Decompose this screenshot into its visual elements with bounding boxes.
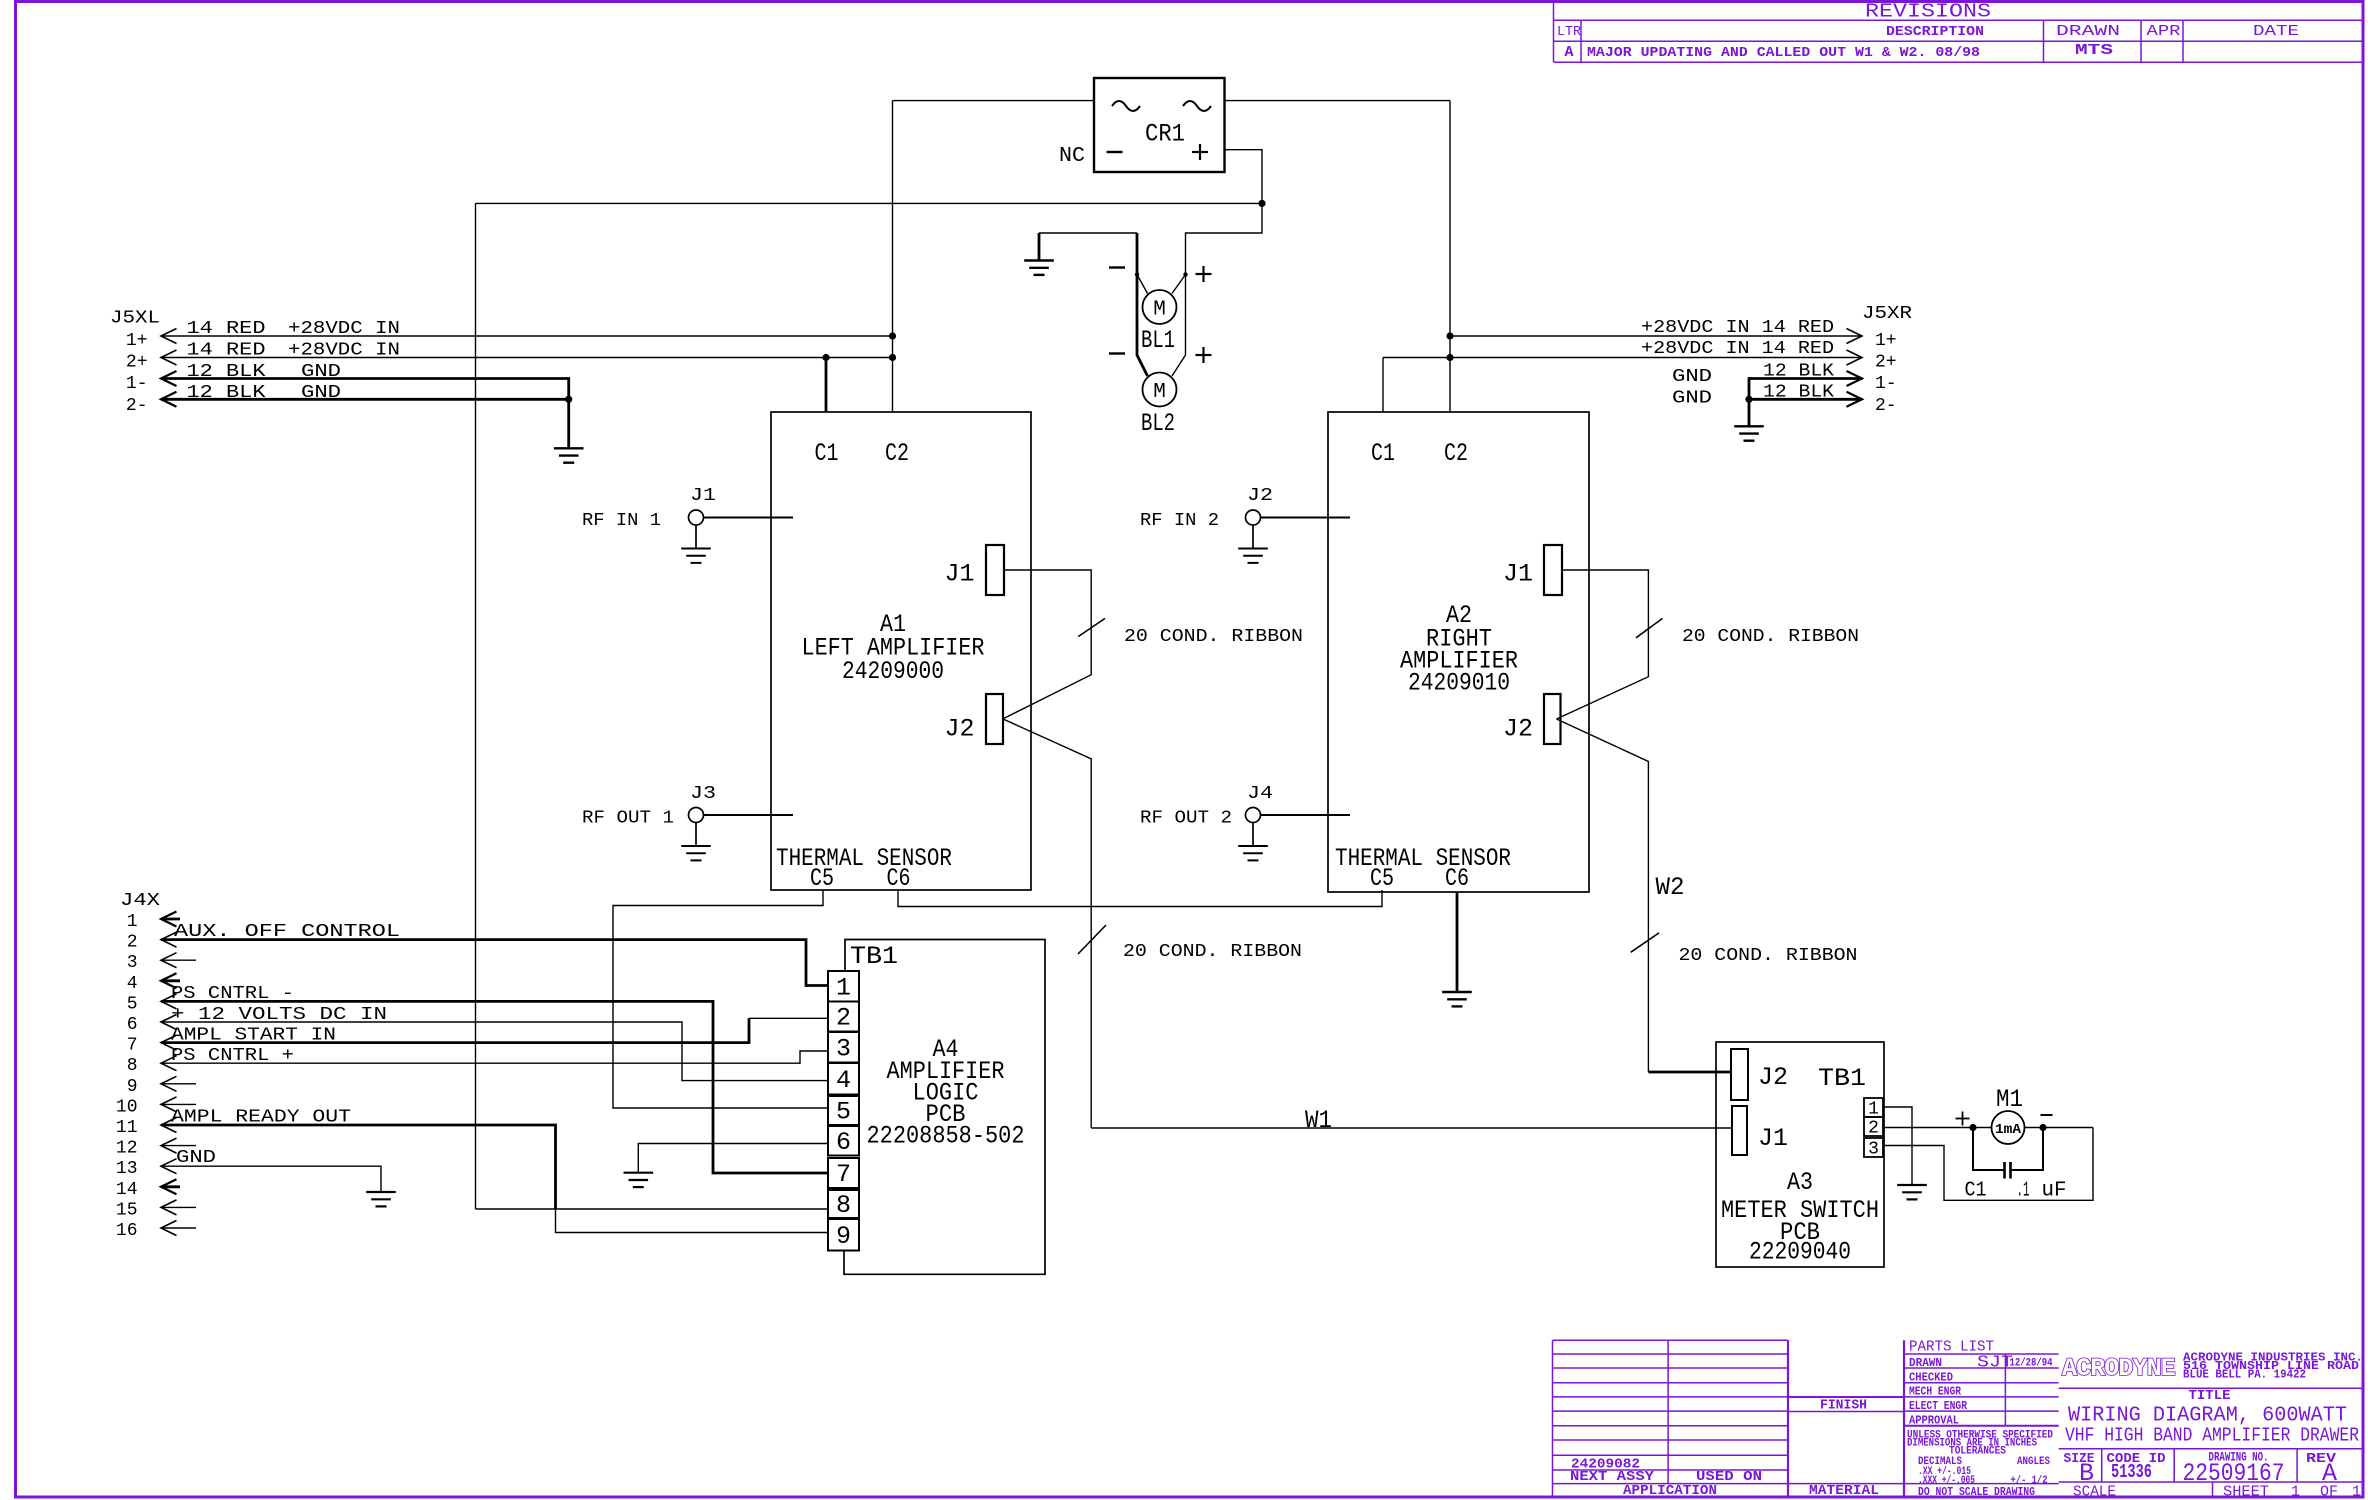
svg-text:GND: GND — [1672, 389, 1712, 409]
svg-text:LTR: LTR — [1557, 24, 1582, 40]
wire BL1 minus drop — [1136, 233, 1139, 275]
wire W1 to A3 J1 — [1091, 1127, 1732, 1129]
J4X pin 9 stub — [161, 1083, 196, 1085]
ground symbol J5XL — [554, 448, 584, 462]
node dot meter minus — [2039, 1124, 2046, 1131]
svg-text:DRAWN: DRAWN — [1909, 1356, 1942, 1370]
J4X pin 16 stub — [161, 1227, 196, 1229]
A4 TB1 terminal 8 box — [828, 1190, 859, 1218]
connector J2 RF IN 2 circle — [1246, 510, 1261, 525]
svg-text:2-: 2- — [1875, 396, 1897, 416]
svg-text:12: 12 — [116, 1139, 138, 1159]
connector J3 RF OUT 1 circle — [689, 808, 704, 823]
wire J5XL 2+ line — [161, 357, 893, 359]
svg-text:5: 5 — [836, 1098, 851, 1127]
module A1 block outline — [771, 412, 1031, 890]
wire A1 C1 stub — [825, 358, 828, 413]
svg-text:M: M — [1153, 299, 1166, 322]
wire J5XL 2- line — [161, 398, 569, 401]
svg-text:J1: J1 — [945, 560, 975, 589]
svg-text:24209010: 24209010 — [1408, 669, 1510, 698]
module A2 block outline — [1328, 412, 1589, 892]
svg-text:14 RED: 14 RED — [187, 341, 266, 361]
wire capacitor to minus rail — [2011, 1128, 2044, 1171]
J4X pin 3 stub — [161, 959, 196, 961]
wire CR1 plus output — [1225, 150, 1263, 204]
svg-text:5: 5 — [127, 994, 138, 1014]
J4X pin 7 arrow — [161, 1035, 177, 1050]
J4X pin 4 arrow — [161, 973, 177, 988]
svg-text:OF: OF — [2320, 1484, 2338, 1500]
wire J5XR 2- line — [1749, 398, 1862, 401]
blower BL1 motor circle — [1143, 290, 1177, 324]
ground stub RF OUT 1 — [695, 823, 697, 847]
svg-text:J3: J3 — [690, 784, 716, 804]
svg-text:3: 3 — [836, 1034, 851, 1063]
svg-text:2+: 2+ — [126, 353, 148, 373]
wire A1 J1 ribbon — [1003, 570, 1091, 719]
wire J5XR 1+ line — [1450, 335, 1862, 337]
node dot J5XL gnd junction — [565, 396, 572, 403]
J5XL arrow 1+ — [161, 329, 177, 344]
J5XL arrow 1- — [161, 371, 177, 386]
node dot 1+ tap right — [1446, 332, 1453, 339]
svg-text:VHF HIGH BAND AMPLIFIER DRAWER: VHF HIGH BAND AMPLIFIER DRAWER — [2065, 1425, 2359, 1447]
wire AMPL START into TB1-2 — [749, 1017, 828, 1019]
J4X pin 3 arrow — [161, 953, 177, 968]
wire RF OUT 1 — [704, 814, 794, 816]
connector A1 J2 rect — [986, 694, 1003, 744]
J4X pin 1 arrow — [161, 912, 177, 927]
svg-text:J4: J4 — [1247, 784, 1273, 804]
connector A1 J1 rect — [986, 545, 1004, 595]
J4X pin 12 stub — [161, 1145, 196, 1147]
svg-text:DO NOT SCALE DRAWING: DO NOT SCALE DRAWING — [1918, 1485, 2035, 1499]
svg-text:C1: C1 — [1965, 1180, 1987, 1203]
wire RF IN 1 — [704, 517, 794, 519]
ground symbol RF IN 2 — [1238, 549, 1268, 563]
ground stub J5XR — [1748, 399, 1751, 426]
J4X pin 11 arrow — [161, 1118, 177, 1133]
A3 TB1 terminal 2 box — [1864, 1117, 1883, 1136]
svg-text:W1: W1 — [1305, 1106, 1332, 1135]
blower BL2 minus sign — [1109, 352, 1125, 354]
svg-text:RF OUT 2: RF OUT 2 — [1140, 809, 1232, 829]
ribbon slash A1 upper — [1078, 618, 1105, 636]
wire meter minus side — [2025, 1127, 2094, 1129]
wire J5XL 1- line — [161, 379, 569, 400]
J4X pin 14 stub — [161, 1185, 180, 1188]
rectifier CR1 box — [1094, 78, 1225, 172]
blower BL1 plus sign — [1196, 266, 1212, 282]
J5XR arrow 2+ — [1847, 350, 1863, 365]
ground stub RF OUT 2 — [1252, 823, 1254, 847]
svg-text:16: 16 — [116, 1221, 138, 1241]
A4 TB1 terminal 7 box — [828, 1158, 859, 1188]
wire BL1 minus down to BL2 — [1137, 275, 1148, 377]
ground stub J5XL — [567, 399, 570, 448]
wire +28V into A4 TB1-8 — [476, 1208, 829, 1210]
parts list section lines — [1904, 1354, 2059, 1484]
ground symbol blower minus rail — [1024, 261, 1054, 275]
svg-text:2: 2 — [836, 1004, 851, 1033]
svg-text:1: 1 — [127, 912, 138, 932]
wire J4X pin5 PS CNTRL- to TB1-7 — [161, 1001, 828, 1173]
wire J4X pin11 AMPL READY to TB1-9 — [161, 1125, 556, 1209]
module A3 block outline — [1716, 1042, 1884, 1267]
node dot CR1 plus junction — [1258, 200, 1265, 207]
svg-text:J2: J2 — [945, 715, 975, 744]
svg-text:CR1: CR1 — [1145, 120, 1185, 149]
svg-text:20 COND. RIBBON: 20 COND. RIBBON — [1682, 627, 1859, 647]
svg-text:15: 15 — [116, 1200, 138, 1220]
svg-text:ANGLES: ANGLES — [2017, 1456, 2050, 1468]
svg-text:1-: 1- — [1875, 374, 1897, 394]
J5XR arrow 1- — [1847, 371, 1863, 386]
blower BL1 minus sign — [1109, 266, 1125, 268]
svg-text:1+: 1+ — [1875, 331, 1897, 351]
svg-text:A3: A3 — [1787, 1168, 1813, 1197]
ground symbol J4X pin13 — [366, 1192, 396, 1206]
wire left riser x=892 down to A1 C2 — [892, 101, 894, 412]
wire RF IN 2 — [1261, 517, 1351, 519]
svg-text:MTS: MTS — [2075, 42, 2113, 59]
J4X pin 10 stub — [161, 1103, 196, 1105]
svg-text:12 BLK: 12 BLK — [1763, 383, 1834, 403]
A4 TB1 terminal 9 box — [828, 1219, 859, 1251]
wire minus rail ground to BL1 minus — [1039, 232, 1137, 234]
svg-text:C1: C1 — [815, 439, 839, 468]
svg-text:THERMAL SENSOR: THERMAL SENSOR — [1335, 844, 1511, 873]
ground symbol RF OUT 1 — [681, 846, 711, 860]
svg-text:J2: J2 — [1758, 1063, 1788, 1092]
ribbon slash A2 upper — [1636, 618, 1663, 637]
wire A1 C5 to TB1-5 — [613, 890, 828, 1108]
svg-text:1: 1 — [2291, 1484, 2300, 1500]
svg-text:2: 2 — [127, 933, 138, 953]
wire J5XL 1+ line — [161, 335, 893, 337]
J4X pin 10 arrow — [161, 1097, 177, 1112]
svg-text:GND: GND — [176, 1148, 216, 1168]
svg-text:ACRODYNE: ACRODYNE — [2062, 1354, 2175, 1383]
svg-text:8: 8 — [127, 1056, 138, 1076]
svg-text:MAJOR UPDATING AND CALLED OUT: MAJOR UPDATING AND CALLED OUT W1 & W2. 0… — [1587, 45, 1980, 61]
svg-text:51336: 51336 — [2111, 1461, 2152, 1483]
svg-text:ELECT ENGR: ELECT ENGR — [1909, 1399, 1968, 1413]
J4X pin 9 arrow — [161, 1076, 177, 1091]
connector J1 RF IN 1 circle — [689, 510, 704, 525]
svg-text:APPLICATION: APPLICATION — [1623, 1483, 1717, 1499]
svg-text:2: 2 — [1868, 1119, 1879, 1139]
J5XR arrow 2- — [1847, 392, 1863, 407]
ground symbol RF OUT 2 — [1238, 846, 1268, 860]
J4X pin 8 arrow — [161, 1056, 177, 1071]
blower BL1 minus lead — [1137, 275, 1148, 294]
A3 TB1 terminal 3 box — [1864, 1138, 1883, 1157]
svg-text:A: A — [1565, 44, 1574, 61]
A4 TB1 terminal 6 box — [828, 1126, 859, 1156]
CR1 minus terminal sign — [1107, 151, 1123, 153]
connector A2 J2 rect — [1544, 694, 1561, 744]
wire A1 C6 to A2 C5 — [898, 890, 1382, 907]
meter M1 circle — [1992, 1111, 2025, 1144]
svg-text:.1: .1 — [2017, 1180, 2030, 1203]
svg-text:12 BLK: 12 BLK — [187, 383, 266, 403]
svg-text:J5XL: J5XL — [110, 309, 160, 329]
J4X pin 13 arrow — [161, 1159, 177, 1174]
company section lines — [2059, 1388, 2363, 1497]
J5XR arrow 1+ — [1847, 329, 1863, 344]
svg-text:1: 1 — [2352, 1484, 2361, 1500]
svg-text:20 COND. RIBBON: 20 COND. RIBBON — [1679, 946, 1858, 966]
J4X pin 12 arrow — [161, 1138, 177, 1153]
svg-text:6: 6 — [836, 1128, 851, 1157]
svg-text:RF IN 2: RF IN 2 — [1140, 511, 1219, 531]
capacitor C1 plates — [2005, 1162, 2011, 1179]
svg-text:DRAWN: DRAWN — [2056, 23, 2120, 40]
wire CR1 left AC to C2 riser — [893, 100, 1095, 102]
svg-text:C2: C2 — [1444, 439, 1468, 468]
svg-text:12 BLK: 12 BLK — [1763, 362, 1834, 382]
connector A3 J2 rect — [1731, 1049, 1748, 1100]
node dot 2+ tap left — [889, 354, 896, 361]
node dot A1 C1 tap — [822, 354, 829, 361]
svg-text:7: 7 — [127, 1036, 138, 1056]
blower BL1 plus lead — [1172, 275, 1186, 294]
A4 TB1 terminal 2 box — [828, 1002, 859, 1032]
svg-text:1+: 1+ — [126, 331, 148, 351]
wire BL1 plus down to BL2 — [1172, 275, 1186, 377]
A4 TB1 terminal 3 box — [828, 1032, 859, 1063]
svg-text:+28VDC IN 14 RED: +28VDC IN 14 RED — [1641, 339, 1834, 359]
wire plus rail to BL1 plus — [1186, 203, 1263, 274]
svg-text:12 BLK: 12 BLK — [187, 362, 266, 382]
blower BL2 motor circle — [1143, 373, 1177, 407]
J4X pin 15 arrow — [161, 1200, 177, 1215]
svg-text:12/28/94: 12/28/94 — [2010, 1358, 2053, 1370]
svg-text:BLUE BELL PA. 19422: BLUE BELL PA. 19422 — [2183, 1369, 2306, 1382]
wire CR1 right AC to right riser — [1225, 100, 1451, 102]
title block finish material column — [1788, 1340, 1904, 1497]
ground symbol A3 TB1-1 — [1897, 1185, 1927, 1199]
wire plus rail to capacitor — [1973, 1128, 2004, 1171]
connector A2 J1 rect — [1544, 545, 1562, 595]
svg-text:J2: J2 — [1503, 715, 1533, 744]
J5XL arrow 2- — [161, 392, 177, 407]
svg-text:GND: GND — [301, 362, 341, 382]
ground symbol RF IN 1 — [681, 549, 711, 563]
wire W2 into A3 J2 — [1648, 1071, 1731, 1074]
svg-text:SJT: SJT — [1977, 1354, 2013, 1373]
svg-text:W2: W2 — [1656, 873, 1685, 902]
J4X pin 5 arrow — [161, 994, 177, 1009]
node dot meter plus — [1969, 1124, 1976, 1131]
svg-text:+28VDC IN: +28VDC IN — [288, 319, 400, 339]
node dot J5XR gnd junction — [1745, 396, 1752, 403]
svg-text:APPROVAL: APPROVAL — [1909, 1413, 1959, 1427]
svg-text:+28VDC IN: +28VDC IN — [288, 341, 400, 361]
svg-text:CHECKED: CHECKED — [1909, 1371, 1953, 1385]
svg-text:REVISIONS: REVISIONS — [1865, 1, 1991, 23]
wire RF OUT 2 — [1261, 814, 1351, 816]
CR1 plus terminal sign — [1192, 144, 1208, 160]
svg-text:RF IN 1: RF IN 1 — [582, 511, 661, 531]
wire J4X pin13 GND — [161, 1166, 381, 1192]
svg-text:FINISH: FINISH — [1820, 1398, 1867, 1414]
wire A3 TB1-3 loop — [1883, 1128, 2093, 1201]
J4X pin 14 arrow — [161, 1179, 177, 1194]
A3 TB1 terminal 1 box — [1864, 1098, 1883, 1117]
module A4 block outline — [844, 940, 1045, 1275]
svg-text:SCALE: SCALE — [2073, 1484, 2116, 1500]
svg-text:TB1: TB1 — [1818, 1064, 1866, 1093]
svg-text:3: 3 — [127, 953, 138, 973]
svg-text:J1: J1 — [1758, 1124, 1788, 1153]
wire J4X pin8 PS CNTRL+ to TB1-3 — [161, 1051, 828, 1063]
svg-text:1: 1 — [836, 973, 851, 1002]
ground stub RF IN 1 — [695, 525, 697, 549]
svg-text:GND: GND — [1672, 367, 1712, 387]
wire A2 J2 ribbon down W2 — [1557, 719, 1649, 1072]
J4X pin 4 stub — [161, 979, 180, 982]
svg-text:C1: C1 — [1371, 439, 1395, 468]
svg-text:TB1: TB1 — [850, 942, 898, 971]
blower BL1 terminal dots — [1135, 272, 1139, 276]
svg-text:RF OUT 1: RF OUT 1 — [582, 809, 674, 829]
svg-text:3: 3 — [1868, 1140, 1879, 1160]
svg-text:J4X: J4X — [120, 891, 160, 911]
wire J4X pin2 AUX OFF CONTROL to TB1-1 — [161, 940, 828, 986]
label meter plus sign — [1956, 1112, 1970, 1126]
svg-text:14 RED: 14 RED — [187, 319, 266, 339]
svg-text:M: M — [1153, 381, 1166, 404]
svg-text:6: 6 — [127, 1015, 138, 1035]
svg-text:GND: GND — [301, 383, 341, 403]
ground wire TB1-6 — [638, 1144, 828, 1173]
svg-text:24209000: 24209000 — [842, 657, 944, 686]
svg-text:22209040: 22209040 — [1749, 1238, 1851, 1267]
J4X pin 16 arrow — [161, 1221, 177, 1236]
svg-text:uF: uF — [2042, 1180, 2067, 1203]
svg-text:7: 7 — [836, 1160, 851, 1189]
wire A1 J2 ribbon down — [1003, 719, 1091, 1128]
svg-text:MECH ENGR: MECH ENGR — [1909, 1385, 1962, 1399]
svg-text:9: 9 — [836, 1222, 851, 1251]
svg-text:APR: APR — [2147, 23, 2181, 40]
node dot 1+ tap left — [889, 332, 896, 339]
svg-text:4: 4 — [127, 974, 138, 994]
svg-text:11: 11 — [116, 1118, 138, 1138]
wire A2 J1 ribbon — [1557, 570, 1649, 719]
svg-text:20 COND. RIBBON: 20 COND. RIBBON — [1124, 627, 1303, 647]
wire AMPL READY into TB1-9 — [556, 1209, 829, 1233]
ground stub RF IN 2 — [1252, 525, 1254, 549]
wire A2 C1 stub — [1382, 358, 1384, 413]
svg-text:1mA: 1mA — [1995, 1123, 2022, 1138]
svg-text:9: 9 — [127, 1077, 138, 1097]
svg-text:C5: C5 — [1370, 864, 1394, 893]
svg-text:C6: C6 — [887, 864, 911, 893]
connector A3 J1 rect — [1732, 1106, 1747, 1155]
svg-text:MATERIAL: MATERIAL — [1809, 1483, 1879, 1499]
blower BL2 plus sign — [1196, 347, 1212, 363]
J4X pin 2 arrow — [161, 932, 177, 947]
ribbon slash W1 — [1078, 925, 1106, 954]
svg-text:BL1: BL1 — [1141, 326, 1175, 355]
svg-text:22208858-502: 22208858-502 — [867, 1122, 1025, 1151]
svg-text:SHEET: SHEET — [2223, 1484, 2269, 1500]
wire J4X pin7 AMPL START to TB1-2 — [161, 1018, 749, 1042]
CR1 AC symbol left — [1112, 101, 1140, 111]
revisions table outline — [1554, 2, 2364, 63]
ground symbol J5XR — [1734, 426, 1764, 440]
svg-text:10: 10 — [116, 1097, 138, 1117]
svg-text:C2: C2 — [885, 439, 909, 468]
J4X pin 1 stub — [161, 918, 180, 921]
svg-text:2+: 2+ — [1875, 353, 1897, 373]
svg-text:1-: 1- — [126, 374, 148, 394]
svg-text:TITLE: TITLE — [2189, 1388, 2231, 1404]
svg-text:C6: C6 — [1445, 864, 1469, 893]
ground symbol A2 C6 — [1442, 992, 1472, 1006]
ribbon slash W2 — [1631, 933, 1659, 952]
svg-text:C5: C5 — [810, 864, 834, 893]
wire +28V riser x=475 down to TB1-8 row — [475, 203, 477, 1209]
svg-text:8: 8 — [836, 1191, 851, 1220]
wire right riser x=1450 down to A2 C2 — [1449, 101, 1451, 412]
wire +28V bus y=203 to left riser — [476, 202, 1263, 204]
svg-text:DATE: DATE — [2253, 23, 2299, 40]
wire J4X pin6 +12V to TB1-4 — [161, 1022, 828, 1081]
CR1 AC symbol right — [1183, 101, 1211, 111]
label meter minus sign — [2041, 1114, 2053, 1116]
svg-text:J2: J2 — [1247, 486, 1273, 506]
ground symbol TB1-6 — [624, 1173, 654, 1187]
A4 TB1 terminal 5 box — [828, 1096, 859, 1125]
J4X pin 15 stub — [161, 1206, 196, 1208]
J5XL arrow 2+ — [161, 350, 177, 365]
svg-text:DESCRIPTION: DESCRIPTION — [1886, 24, 1984, 40]
svg-text:THERMAL SENSOR: THERMAL SENSOR — [776, 844, 952, 873]
svg-text:13: 13 — [116, 1159, 138, 1179]
A4 TB1 terminal 4 box — [828, 1063, 859, 1095]
wire A3 TB1-1 to ground — [1883, 1107, 1912, 1185]
title block application section lines — [1553, 1340, 1789, 1497]
svg-text:J5XR: J5XR — [1862, 304, 1912, 324]
svg-text:J1: J1 — [690, 486, 716, 506]
ground stub blower minus rail — [1038, 233, 1041, 261]
wire A2 C6 ground stub — [1456, 892, 1459, 992]
svg-text:+28VDC IN 14 RED: +28VDC IN 14 RED — [1641, 318, 1834, 338]
J4X pin 6 arrow — [161, 1015, 177, 1030]
svg-text:20 COND. RIBBON: 20 COND. RIBBON — [1123, 942, 1302, 962]
svg-text:M1: M1 — [1996, 1085, 2023, 1114]
wire J5XR 1- line — [1749, 379, 1862, 400]
connector J4 RF OUT 2 circle — [1246, 808, 1261, 823]
svg-text:14: 14 — [116, 1180, 138, 1200]
wire J5XR 2+ line — [1383, 357, 1862, 359]
svg-text:J1: J1 — [1503, 560, 1533, 589]
svg-text:4: 4 — [836, 1066, 851, 1095]
svg-text:2-: 2- — [126, 396, 148, 416]
wire A3 TB1-2 to meter — [1883, 1127, 1992, 1129]
svg-text:BL2: BL2 — [1141, 409, 1175, 438]
svg-text:NC: NC — [1059, 145, 1085, 168]
node dot 2+ tap right — [1446, 354, 1453, 361]
A4 TB1 terminal 1 box — [828, 971, 859, 1002]
